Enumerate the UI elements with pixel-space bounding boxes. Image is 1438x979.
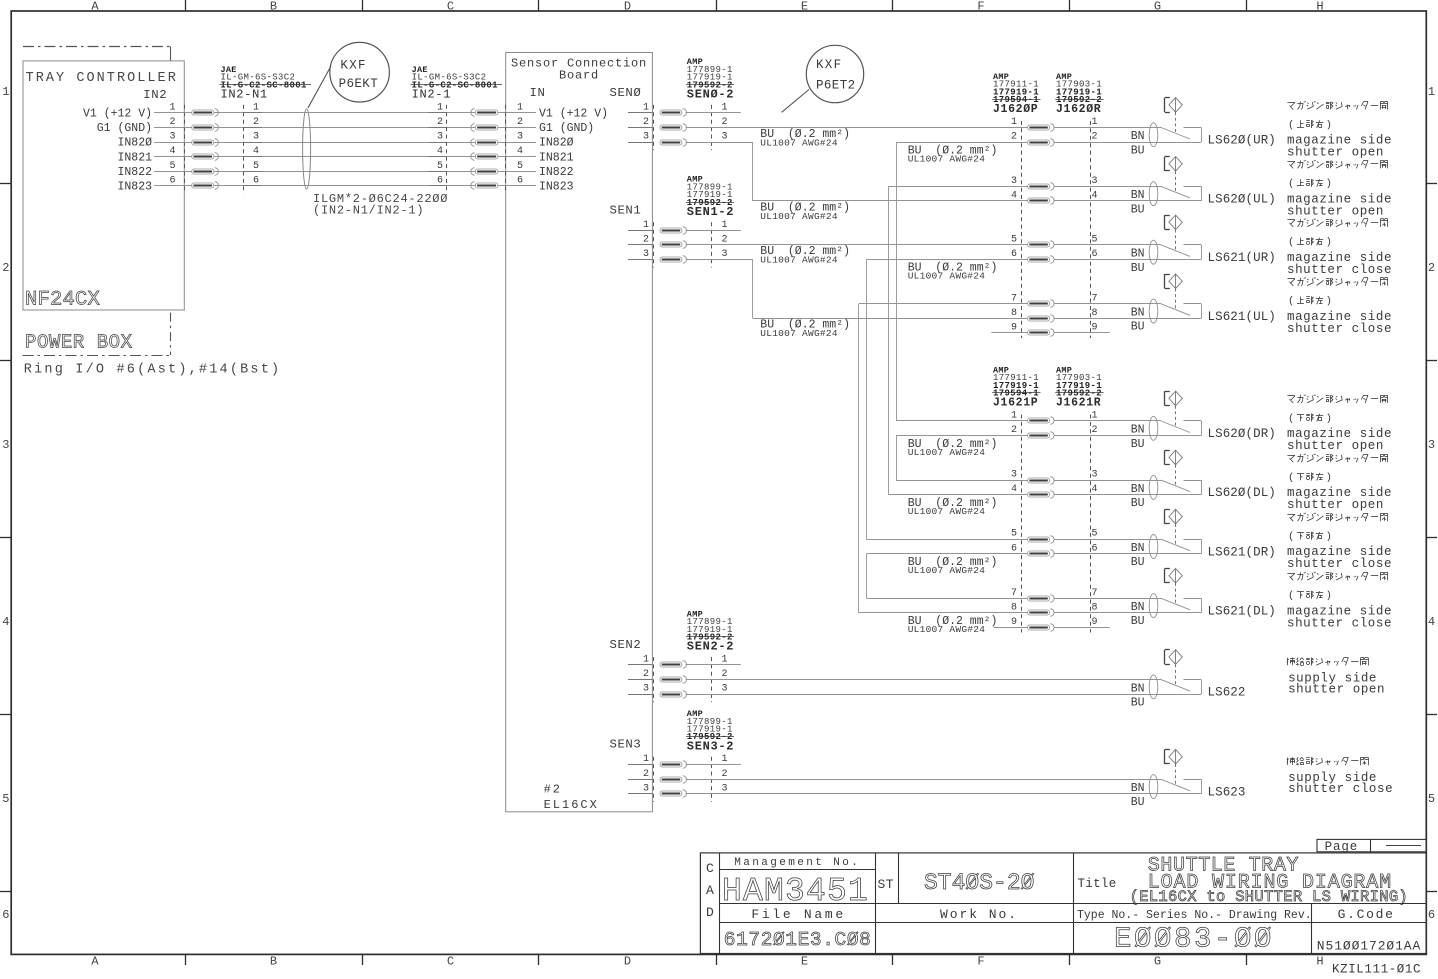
svg-text:2: 2 <box>643 234 649 245</box>
wire SEN3-2 pin3 to LS623 BU <box>686 793 1202 795</box>
svg-text:2: 2 <box>1428 261 1435 275</box>
svg-text:J162ØR: J162ØR <box>1056 103 1101 116</box>
svg-text:8: 8 <box>1011 602 1017 613</box>
connector J1620P dashed line <box>1021 121 1023 338</box>
limit switch LS620(DL) actuator roller <box>1169 450 1182 465</box>
label LS621(UL) japanese <box>1287 278 1295 280</box>
label LS623 japanese <box>1287 758 1289 765</box>
balloon KXF P6EKT <box>330 42 390 102</box>
svg-text:Type No.- Series No.- Drawing: Type No.- Series No.- Drawing Rev. <box>1077 909 1312 922</box>
wire BN to switch <box>1055 303 1162 305</box>
title block horizontal dividers <box>720 869 876 871</box>
svg-text:6: 6 <box>169 175 175 186</box>
svg-text:UL1007 AWG#24: UL1007 AWG#24 <box>760 211 838 222</box>
svg-text:6: 6 <box>437 175 443 186</box>
svg-text:shutter close: shutter close <box>1288 782 1393 796</box>
svg-text:LS623: LS623 <box>1208 785 1246 799</box>
svg-text:File Name: File Name <box>751 907 846 922</box>
svg-text:V1 (+12 V): V1 (+12 V) <box>539 108 608 121</box>
box TRAY CONTROLLER <box>23 61 184 310</box>
limit switch LS621(UR) enclosure <box>1184 244 1202 246</box>
svg-text:2: 2 <box>1092 425 1098 436</box>
svg-text:IN823: IN823 <box>539 181 574 194</box>
svg-text:shutter close: shutter close <box>1287 616 1392 630</box>
svg-text:3: 3 <box>1092 176 1098 187</box>
svg-text:SEN1: SEN1 <box>609 203 641 217</box>
svg-text:D: D <box>624 954 631 968</box>
label LS621(UR) japanese <box>1287 219 1295 221</box>
limit switch LS620(DR) actuator bracket <box>1164 391 1166 405</box>
limit switch LS620(DR) actuator dashed link <box>1175 406 1177 428</box>
limit switch LS621(UL) contact blade <box>1161 304 1190 316</box>
wire SEN3-2 pin2 to LS623 BN <box>686 779 1161 781</box>
cable sheath oval IN2-N1/IN2-1 <box>303 109 311 189</box>
limit switch LS621(DR) actuator dashed link <box>1175 524 1177 546</box>
svg-text:B: B <box>270 0 277 13</box>
svg-text:4: 4 <box>517 146 523 157</box>
wire BU to switch <box>1055 553 1202 555</box>
svg-text:5: 5 <box>1011 234 1017 245</box>
svg-text:6: 6 <box>1011 249 1017 260</box>
svg-text:LS622: LS622 <box>1208 686 1246 700</box>
connector J1620R dashed line <box>1090 121 1092 338</box>
svg-text:): ) <box>1326 178 1332 190</box>
box Sensor Connection Board <box>506 53 653 812</box>
svg-text:BN: BN <box>1131 483 1145 496</box>
wire SEN1-2 pin3 to J1620P pin8 <box>686 259 753 261</box>
svg-text:3: 3 <box>2 438 9 452</box>
wire SEN3-2 pin1 stub <box>686 764 741 766</box>
svg-text:5: 5 <box>1428 792 1435 806</box>
svg-text:9: 9 <box>1092 323 1098 334</box>
limit switch LS621(DR) enclosure <box>1184 539 1202 541</box>
connector J1621R dashed line <box>1090 415 1092 633</box>
wire SEN0-2 pin1 stub <box>686 112 741 114</box>
svg-text:3: 3 <box>169 132 175 143</box>
svg-text:NF24CX: NF24CX <box>25 289 100 312</box>
limit switch LS621(DL) enclosure <box>1184 598 1202 600</box>
limit switch LS620(UR) actuator bracket <box>1164 98 1166 112</box>
svg-text:Board: Board <box>559 69 599 83</box>
machine boundary dash-dot line (tray controller) <box>23 46 170 48</box>
svg-text:LS62Ø(UR): LS62Ø(UR) <box>1208 134 1276 148</box>
svg-text:BN: BN <box>1131 130 1145 143</box>
svg-text:UL1007 AWG#24: UL1007 AWG#24 <box>908 153 986 164</box>
svg-text:3: 3 <box>643 132 649 143</box>
wire BU to switch <box>1055 200 1202 202</box>
svg-text:1: 1 <box>1092 117 1098 128</box>
svg-text:2: 2 <box>437 117 443 128</box>
svg-text:1: 1 <box>2 85 9 99</box>
crimp terminals IN side <box>475 110 497 115</box>
svg-text:4: 4 <box>2 615 9 629</box>
wire BU to switch <box>1055 259 1202 261</box>
svg-text:3: 3 <box>1011 176 1017 187</box>
balloon KXF P6ET2 leader <box>782 90 809 113</box>
svg-text:1: 1 <box>1428 85 1435 99</box>
svg-text:IN822: IN822 <box>117 166 152 179</box>
svg-text:(IN2-N1/IN2-1): (IN2-N1/IN2-1) <box>313 203 424 217</box>
svg-text:Page: Page <box>1325 840 1359 854</box>
frame row ticks right <box>1426 183 1437 185</box>
svg-text:KXF: KXF <box>340 59 366 73</box>
svg-text:): ) <box>1326 237 1332 249</box>
page box <box>1317 839 1426 851</box>
crimp terminals J1621P/J1621R <box>1028 418 1050 423</box>
svg-text:5: 5 <box>1011 529 1017 540</box>
svg-text:3: 3 <box>253 132 259 143</box>
svg-text:4: 4 <box>1092 191 1098 202</box>
limit switch LS622 enclosure <box>1184 679 1202 681</box>
limit switch LS620(DL) contact blade <box>1161 480 1190 492</box>
limit switch LS620(UR) actuator dashed link <box>1175 112 1177 134</box>
title block vertical dividers <box>875 853 877 954</box>
svg-text:Ring I/O #6(Ast),#14(Bst): Ring I/O #6(Ast),#14(Bst) <box>24 362 282 377</box>
connector IN2 dashed line <box>184 105 186 194</box>
svg-text:SEN3: SEN3 <box>609 738 641 752</box>
svg-text:V1 (+12 V): V1 (+12 V) <box>83 108 152 121</box>
svg-text:#2: #2 <box>544 783 562 797</box>
limit switch LS621(UR) contact blade <box>1161 245 1190 257</box>
svg-text:G: G <box>1154 0 1161 13</box>
limit switch LS621(UL) enclosure <box>1184 303 1202 305</box>
connector IN pin signal labels <box>506 112 536 114</box>
svg-text:8: 8 <box>1011 308 1017 319</box>
svg-text:IN82Ø: IN82Ø <box>539 137 574 150</box>
limit switch LS621(DR) actuator roller <box>1169 509 1182 524</box>
limit switch LS621(UR) actuator dashed link <box>1175 230 1177 252</box>
wire BU to switch <box>1055 142 1202 144</box>
wire BN to switch <box>1055 127 1162 129</box>
svg-text:2: 2 <box>2 261 9 275</box>
svg-text:1: 1 <box>643 655 649 666</box>
svg-text:SEN1-2: SEN1-2 <box>687 205 734 219</box>
wire SEN0-2 pin2 to J1620P pin1 <box>686 127 1028 129</box>
title block outline <box>700 853 1426 954</box>
svg-text:IN823: IN823 <box>117 181 152 194</box>
limit switch LS620(UL) actuator bracket <box>1164 157 1166 171</box>
wire J1621P pin9 stub <box>994 627 1028 629</box>
limit switch LS622 actuator dashed link <box>1175 664 1177 686</box>
svg-text:UL1007 AWG#24: UL1007 AWG#24 <box>760 137 838 148</box>
svg-text:): ) <box>1326 472 1332 484</box>
connector SEN0-2 dashed line <box>711 105 713 150</box>
svg-text:BU: BU <box>1131 438 1145 451</box>
svg-text:D: D <box>706 905 714 920</box>
connector IN2-N1 dashed line <box>243 105 245 194</box>
svg-text:G.Code: G.Code <box>1338 907 1395 922</box>
svg-text:HAM3451: HAM3451 <box>722 873 869 910</box>
svg-text:H: H <box>1316 954 1323 968</box>
svg-text:H: H <box>1316 0 1323 13</box>
svg-text:shutter close: shutter close <box>1287 322 1392 336</box>
svg-text:6: 6 <box>517 175 523 186</box>
svg-text:9: 9 <box>1092 617 1098 628</box>
limit switch LS623 actuator dashed link <box>1175 764 1177 786</box>
svg-text:LS62Ø(DL): LS62Ø(DL) <box>1208 486 1276 500</box>
wire BU to switch <box>1055 494 1202 496</box>
svg-text:1: 1 <box>643 754 649 765</box>
limit switch LS620(DR) cable sheath <box>1149 416 1158 440</box>
svg-text:BN: BN <box>1131 307 1145 320</box>
wire J1620P pin6 to J1621P pin5 <box>867 259 1028 261</box>
svg-text:3: 3 <box>1092 470 1098 481</box>
title block CAD column <box>719 853 721 954</box>
svg-text:shutter open: shutter open <box>1287 498 1384 512</box>
svg-text:ST4ØS-2Ø: ST4ØS-2Ø <box>924 870 1035 896</box>
svg-text:3: 3 <box>517 132 523 143</box>
frame row ticks left <box>0 183 11 185</box>
svg-text:3: 3 <box>722 132 728 143</box>
connector J1621P dashed line <box>1021 415 1023 633</box>
limit switch LS621(DL) actuator dashed link <box>1175 583 1177 605</box>
svg-text:G: G <box>1154 954 1161 968</box>
svg-text:3: 3 <box>1011 470 1017 481</box>
connector SEN0 dashed line <box>653 105 655 150</box>
svg-text:5: 5 <box>1092 234 1098 245</box>
wire BU to switch <box>1055 612 1202 614</box>
svg-text:TRAY CONTROLLER: TRAY CONTROLLER <box>26 71 178 86</box>
svg-text:1: 1 <box>722 220 728 231</box>
limit switch LS620(UR) enclosure <box>1184 127 1202 129</box>
svg-text:A: A <box>706 883 714 898</box>
svg-text:BU: BU <box>1131 321 1145 334</box>
svg-text:J1621R: J1621R <box>1056 397 1101 410</box>
svg-text:2: 2 <box>517 117 523 128</box>
svg-text:IN821: IN821 <box>539 151 574 164</box>
svg-text:1: 1 <box>643 220 649 231</box>
svg-text:(: ( <box>1288 531 1294 543</box>
svg-text:LS621(UR): LS621(UR) <box>1208 251 1276 265</box>
svg-text:BU: BU <box>1131 697 1145 710</box>
label LS621(DL) japanese <box>1287 573 1295 575</box>
wire SEN2-2 pin3 to LS622 BU <box>686 694 1202 696</box>
limit switch LS621(UR) actuator roller <box>1169 215 1182 230</box>
svg-text:5: 5 <box>253 161 259 172</box>
svg-text:Management No.: Management No. <box>734 857 860 869</box>
svg-text:BN: BN <box>1131 542 1145 555</box>
svg-text:1: 1 <box>722 102 728 113</box>
wire BN to switch <box>1055 186 1162 188</box>
svg-text:2: 2 <box>722 769 728 780</box>
label LS621(DR) japanese <box>1287 514 1295 516</box>
svg-text:C: C <box>447 0 454 13</box>
limit switch LS620(DL) actuator dashed link <box>1175 465 1177 487</box>
svg-text:2: 2 <box>722 669 728 680</box>
svg-text:A: A <box>91 954 99 968</box>
limit switch LS621(DL) actuator roller <box>1169 568 1182 583</box>
svg-text:2: 2 <box>1092 132 1098 143</box>
svg-text:UL1007 AWG#24: UL1007 AWG#24 <box>908 624 986 635</box>
frame column ticks bottom <box>185 954 187 965</box>
svg-text:J1621P: J1621P <box>993 397 1038 410</box>
connector SEN3 dashed line <box>653 757 655 802</box>
svg-text:3: 3 <box>722 783 728 794</box>
wire BN to switch <box>1055 244 1162 246</box>
svg-text:SEN3-2: SEN3-2 <box>687 739 734 753</box>
svg-text:9: 9 <box>1011 617 1017 628</box>
limit switch LS621(DR) actuator bracket <box>1164 509 1166 523</box>
svg-text:SEN2-2: SEN2-2 <box>687 640 734 654</box>
limit switch LS620(UR) actuator roller <box>1169 98 1182 113</box>
wire SEN2-2 pin2 to LS622 BN <box>686 679 1161 681</box>
svg-text:5: 5 <box>1092 529 1098 540</box>
svg-text:3: 3 <box>437 132 443 143</box>
svg-text:UL1007 AWG#24: UL1007 AWG#24 <box>908 447 986 458</box>
connector SEN2-2 dashed line <box>711 657 713 702</box>
svg-text:4: 4 <box>253 146 259 157</box>
svg-text:(: ( <box>1288 472 1294 484</box>
svg-text:G1 (GND): G1 (GND) <box>539 122 594 135</box>
svg-text:shutter open: shutter open <box>1287 146 1384 160</box>
svg-text:3: 3 <box>643 783 649 794</box>
svg-text:C: C <box>447 954 454 968</box>
svg-text:UL1007 AWG#24: UL1007 AWG#24 <box>908 506 986 517</box>
svg-text:3: 3 <box>643 684 649 695</box>
svg-text:1: 1 <box>722 655 728 666</box>
svg-text:KXF: KXF <box>816 58 842 72</box>
svg-text:2: 2 <box>643 769 649 780</box>
svg-text:BU: BU <box>1131 203 1145 216</box>
limit switch LS620(UR) cable sheath <box>1149 123 1158 147</box>
limit switch LS623 cable sheath <box>1149 775 1158 799</box>
svg-text:(: ( <box>1288 590 1294 602</box>
limit switch LS621(UL) actuator dashed link <box>1175 289 1177 311</box>
crimp terminals SEN2 <box>660 662 682 667</box>
svg-text:shutter open: shutter open <box>1287 439 1384 453</box>
svg-text:A: A <box>91 0 99 13</box>
wire J1620P pin2 to J1621P pin1 <box>896 142 1028 144</box>
label LS620(DR) japanese <box>1287 395 1295 397</box>
svg-text:6: 6 <box>1011 543 1017 554</box>
svg-text:8: 8 <box>1092 602 1098 613</box>
svg-text:LS621(UL): LS621(UL) <box>1208 310 1276 324</box>
svg-text:3: 3 <box>722 249 728 260</box>
svg-text:E: E <box>801 0 808 13</box>
wire J1621R pin9 stub <box>1055 627 1110 629</box>
limit switch LS620(UR) contact blade <box>1161 128 1190 140</box>
limit switch LS623 contact blade <box>1161 779 1190 791</box>
balloon KXF P6EKT leader <box>308 66 331 108</box>
limit switch LS620(UL) cable sheath <box>1149 182 1158 206</box>
svg-text:BN: BN <box>1131 782 1145 795</box>
svg-text:): ) <box>1326 590 1332 602</box>
connector SEN1-2 dashed line <box>711 222 713 267</box>
svg-text:BU: BU <box>1131 497 1145 510</box>
limit switch LS620(DL) actuator bracket <box>1164 450 1166 464</box>
svg-text:IN: IN <box>530 86 546 100</box>
svg-text:LS62Ø(DR): LS62Ø(DR) <box>1208 427 1276 441</box>
svg-text:G1 (GND): G1 (GND) <box>97 122 152 135</box>
svg-text:2: 2 <box>643 669 649 680</box>
svg-text:1: 1 <box>643 102 649 113</box>
svg-text:IN2: IN2 <box>143 88 167 102</box>
wire J1620P pin3 to J1621P pin4 <box>888 186 1027 188</box>
crimp terminals SEN3 <box>660 762 682 767</box>
svg-text:Title: Title <box>1078 877 1117 891</box>
svg-text:UL1007 AWG#24: UL1007 AWG#24 <box>908 271 986 282</box>
svg-text:BN: BN <box>1131 248 1145 261</box>
svg-text:6: 6 <box>1092 543 1098 554</box>
svg-text:POWER BOX: POWER BOX <box>25 331 133 353</box>
limit switch LS620(UL) actuator dashed link <box>1175 171 1177 193</box>
svg-text:4: 4 <box>169 146 175 157</box>
svg-text:BN: BN <box>1131 682 1145 695</box>
svg-text:7: 7 <box>1011 588 1017 599</box>
svg-text:7: 7 <box>1092 588 1098 599</box>
svg-text:6: 6 <box>1092 249 1098 260</box>
limit switch LS623 actuator roller <box>1169 749 1182 764</box>
svg-text:1: 1 <box>517 102 523 113</box>
svg-text:UL1007 AWG#24: UL1007 AWG#24 <box>908 565 986 576</box>
limit switch LS623 actuator bracket <box>1164 750 1166 764</box>
wire SEN1-2 pin1 stub <box>686 230 741 232</box>
connector SEN2 dashed line <box>653 657 655 702</box>
svg-text:): ) <box>1326 531 1332 543</box>
limit switch LS620(UL) enclosure <box>1184 186 1202 188</box>
limit switch LS620(DR) enclosure <box>1184 420 1202 422</box>
svg-text:EØØ83-ØØ: EØØ83-ØØ <box>1114 923 1274 956</box>
frame column ticks top <box>185 0 187 11</box>
svg-text:shutter open: shutter open <box>1287 204 1384 218</box>
svg-text:UL1007 AWG#24: UL1007 AWG#24 <box>760 328 838 339</box>
svg-text:): ) <box>1326 296 1332 308</box>
balloon KXF P6ET2 <box>806 45 863 102</box>
wire SEN0-2 pin3 to J1620P pin4 <box>686 142 753 144</box>
svg-text:N51ØØ172Ø1AA: N51ØØ172Ø1AA <box>1317 939 1421 954</box>
connector SEN3-2 dashed line <box>711 757 713 802</box>
wire BN to switch <box>1055 420 1162 422</box>
limit switch LS621(DR) cable sheath <box>1149 535 1158 559</box>
svg-text:5: 5 <box>517 161 523 172</box>
svg-text:SENØ-2: SENØ-2 <box>687 88 734 102</box>
svg-text:Work No.: Work No. <box>940 907 1018 922</box>
limit switch LS621(UL) actuator bracket <box>1164 274 1166 288</box>
limit switch LS621(UR) cable sheath <box>1149 240 1158 264</box>
svg-text:BU: BU <box>1131 556 1145 569</box>
limit switch LS620(DR) actuator roller <box>1169 391 1182 406</box>
wire J1621P pin6 to J1621P pin7 jumper <box>867 553 1028 555</box>
wire SEN2-2 pin1 stub <box>686 664 741 666</box>
svg-text:2: 2 <box>722 117 728 128</box>
label LS622 japanese <box>1287 658 1289 665</box>
svg-text:1: 1 <box>1011 411 1017 422</box>
wire BN to switch <box>1055 539 1162 541</box>
svg-text:IN822: IN822 <box>539 166 574 179</box>
connector IN dashed line <box>505 105 507 194</box>
svg-text:shutter open: shutter open <box>1288 682 1385 696</box>
limit switch LS621(UR) actuator bracket <box>1164 215 1166 229</box>
svg-text:6: 6 <box>2 908 9 922</box>
svg-text:B: B <box>270 954 277 968</box>
svg-text:3: 3 <box>1428 438 1435 452</box>
crimp terminals IN2 side <box>192 110 214 115</box>
svg-text:4: 4 <box>1092 484 1098 495</box>
svg-text:9: 9 <box>1011 323 1017 334</box>
svg-text:3: 3 <box>722 684 728 695</box>
svg-text:1: 1 <box>437 102 443 113</box>
svg-text:(EL16CX to SHUTTER LS WIRING): (EL16CX to SHUTTER LS WIRING) <box>1130 888 1408 906</box>
limit switch LS621(DL) actuator bracket <box>1164 569 1166 583</box>
svg-text:D: D <box>624 0 631 13</box>
wire BU to switch <box>1055 318 1202 320</box>
svg-text:BU: BU <box>1131 144 1145 157</box>
svg-text:IN82Ø: IN82Ø <box>117 137 152 150</box>
svg-text:7: 7 <box>1011 293 1017 304</box>
svg-text:P6EKT: P6EKT <box>339 77 379 91</box>
svg-text:SENØ: SENØ <box>609 86 641 100</box>
svg-text:ST: ST <box>878 877 895 892</box>
